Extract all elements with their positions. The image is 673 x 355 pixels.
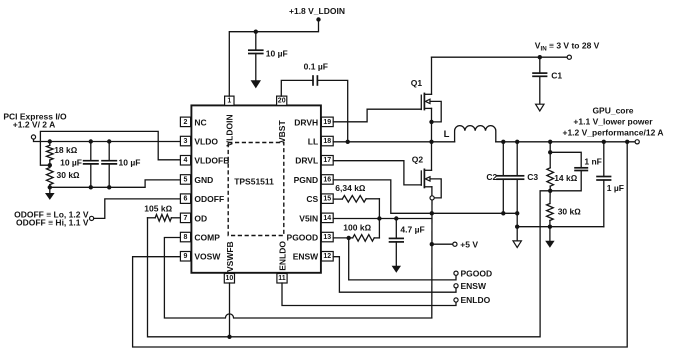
svg-text:1 µF: 1 µF	[607, 183, 624, 193]
svg-text:30 kΩ: 30 kΩ	[558, 207, 582, 217]
svg-text:6: 6	[184, 196, 188, 203]
svg-text:C1: C1	[551, 71, 562, 81]
wire PGOOD to terminal	[349, 238, 456, 280]
junction feedback top	[625, 140, 629, 144]
svg-text:ENSW: ENSW	[461, 281, 487, 291]
svg-text:COMP: COMP	[194, 233, 220, 243]
junction Q1 at LL	[429, 140, 433, 144]
junction 1uF top	[602, 140, 606, 144]
junction cap2 top	[107, 139, 111, 143]
svg-text:ENSW: ENSW	[293, 252, 319, 262]
wire gnd link line	[517, 226, 604, 228]
svg-text:2: 2	[184, 119, 188, 126]
svg-text:3: 3	[184, 138, 188, 145]
svg-text:+1.2 V_performance/12 A: +1.2 V_performance/12 A	[562, 128, 663, 138]
svg-text:19: 19	[323, 119, 331, 126]
wire DRVL pin 17 to Q2 gate	[333, 161, 421, 185]
junction PGOOD node	[347, 236, 351, 240]
junction C3 top	[515, 140, 519, 144]
capacitor 1uF	[596, 142, 624, 227]
pin 4 VLDOFB	[180, 156, 229, 166]
junction Q1 source-body	[429, 120, 433, 124]
pin 14 V5IN	[299, 213, 333, 223]
svg-text:5: 5	[184, 176, 188, 183]
svg-text:VOSW: VOSW	[194, 252, 221, 262]
junction VSWFB at feedback line	[227, 335, 231, 339]
svg-text:PGOOD: PGOOD	[461, 268, 493, 278]
wire CS branch down to V5IN	[378, 199, 380, 238]
junction 4.7uF at V5IN	[394, 216, 398, 220]
terminal PCI input	[31, 135, 35, 139]
ground arrow below LDOIN cap	[251, 80, 261, 88]
pin 20 VBST	[277, 96, 288, 143]
svg-text:14 kΩ: 14 kΩ	[554, 173, 578, 183]
svg-text:C3: C3	[527, 172, 538, 182]
resistor R 18k	[47, 142, 78, 166]
svg-text:15: 15	[323, 196, 331, 203]
wire GND rail to pin 5	[50, 180, 181, 187]
wire VSWFB pin 10 with hop	[229, 283, 231, 337]
resistor R 6.34k CS	[333, 183, 379, 202]
wire COMP to bottom line	[164, 238, 431, 319]
svg-text:17: 17	[323, 157, 331, 164]
junction LDOIN cap	[254, 30, 258, 34]
capacitor 0.1uF VBST	[304, 61, 328, 85]
terminal ODOFF	[90, 216, 94, 220]
wire 0.1uF to LL node	[317, 80, 347, 141]
svg-text:11: 11	[278, 275, 286, 282]
resistor R 14k	[547, 142, 578, 191]
terminal GPU core output	[635, 140, 639, 144]
svg-text:Q2: Q2	[412, 155, 424, 165]
svg-text:VLDO: VLDO	[194, 137, 218, 147]
node GPU_core labels	[562, 105, 663, 137]
terminal +1.8V LDOIN	[316, 17, 320, 21]
pin 15 CS	[306, 194, 333, 204]
capacitor 10uF right	[101, 142, 140, 188]
svg-text:13: 13	[323, 234, 331, 241]
transistor Q2	[412, 142, 441, 198]
wire V5IN pin 14	[333, 218, 432, 220]
svg-text:NC: NC	[194, 117, 206, 127]
terminal +5V	[453, 242, 457, 246]
wire 105k down to VSWFB line	[148, 191, 551, 337]
wire ENLDO pin 11 to terminal	[282, 283, 456, 306]
pin 12 ENSW	[293, 252, 333, 262]
svg-text:L: L	[444, 129, 450, 140]
svg-text:8: 8	[184, 234, 188, 241]
pin 16 PGND	[294, 175, 334, 185]
svg-text:10: 10	[226, 275, 234, 282]
wire VIN rail	[432, 56, 568, 58]
junction cap1 top	[89, 139, 93, 143]
junction 0.1uF at LL	[346, 140, 350, 144]
svg-text:VLDOFB: VLDOFB	[194, 156, 229, 166]
svg-text:GPU_core: GPU_core	[592, 105, 633, 115]
junction 14k top	[548, 140, 552, 144]
wire DRVH pin 19 to Q1 gate	[333, 109, 421, 122]
svg-text:+1.1 V_lower power: +1.1 V_lower power	[573, 117, 653, 127]
terminal VIN	[567, 55, 571, 59]
svg-text:ENLDO: ENLDO	[277, 241, 287, 271]
terminal ENSW	[454, 284, 458, 288]
svg-text:ENLDO: ENLDO	[461, 295, 491, 305]
capacitor 10uF LDOIN	[248, 32, 288, 80]
svg-text:+1.2 V/ 2 A: +1.2 V/ 2 A	[13, 120, 55, 130]
ground arrow open below C1	[536, 104, 544, 111]
junction divider tap	[48, 163, 52, 167]
wire +5V stub	[432, 243, 453, 245]
svg-text:18: 18	[323, 138, 331, 145]
junction C2 top	[501, 140, 505, 144]
junction 14k divider top node	[548, 150, 552, 154]
wire divider tap to pin 4 VLDOFB	[40, 131, 180, 165]
svg-text:LL: LL	[308, 137, 318, 147]
svg-text:PGOOD: PGOOD	[287, 233, 319, 243]
svg-text:7: 7	[184, 215, 188, 222]
pin 5 GND	[180, 175, 213, 185]
wire VOSW pin 9 feedback	[133, 142, 628, 347]
junction CS 100k at V5IN	[377, 216, 381, 220]
wire ODOFF to pin 6	[94, 199, 181, 219]
svg-text:PGND: PGND	[294, 175, 319, 185]
svg-text:ODOFF ≡ Hi, 1.1 V: ODOFF ≡ Hi, 1.1 V	[16, 218, 89, 228]
svg-text:10 µF: 10 µF	[119, 157, 141, 167]
svg-text:VSWFB: VSWFB	[225, 241, 235, 272]
resistor R 105k	[144, 203, 180, 221]
wire PCI input rail	[34, 139, 181, 141]
svg-text:ODOFF: ODOFF	[194, 194, 224, 204]
wire LDOIN to pin 1	[229, 20, 318, 97]
pin 2 NC	[180, 117, 206, 127]
svg-text:VBST: VBST	[277, 120, 287, 143]
junction C3 bottom	[515, 211, 519, 215]
svg-text:100 kΩ: 100 kΩ	[343, 223, 371, 233]
svg-text:12: 12	[323, 253, 331, 260]
junction cap1 bottom	[89, 185, 93, 189]
wire output rail	[496, 141, 635, 143]
pin 7 OD	[180, 213, 207, 223]
capacitor C1	[532, 57, 562, 104]
svg-text:C2: C2	[486, 172, 497, 182]
svg-text:Q1: Q1	[411, 78, 423, 88]
junction Q2 source at PGND rail	[430, 211, 434, 215]
svg-text:GND: GND	[194, 175, 213, 185]
svg-text:6,34 kΩ: 6,34 kΩ	[335, 183, 366, 193]
pin 8 COMP	[180, 232, 220, 242]
IC U1 TPS51511 body	[191, 105, 321, 272]
svg-text:OD: OD	[194, 213, 207, 223]
svg-text:10 µF: 10 µF	[266, 48, 288, 58]
svg-text:0.1 µF: 0.1 µF	[304, 61, 328, 71]
junction C1	[538, 55, 542, 59]
pin 1 VLDOIN	[225, 96, 235, 146]
svg-text:105 kΩ: 105 kΩ	[144, 203, 172, 213]
transistor Q1	[411, 57, 441, 142]
junction C2 bottom	[501, 211, 505, 215]
svg-text:1: 1	[227, 98, 231, 105]
wire LL pin 18 to inductor	[333, 141, 454, 143]
ground arrow open below C2 C3	[513, 241, 521, 248]
svg-text:+1.8 V_LDOIN: +1.8 V_LDOIN	[289, 6, 345, 16]
resistor R 30k right	[547, 191, 582, 227]
junction +5V stub	[430, 242, 434, 246]
pin 10 VSWFB	[224, 241, 235, 283]
capacitor 1nF	[550, 152, 602, 191]
junction 30k bottom right	[548, 225, 552, 229]
svg-text:9: 9	[184, 253, 188, 260]
pin 18 LL	[308, 136, 333, 146]
svg-text:20: 20	[278, 98, 286, 105]
capacitor C2	[486, 142, 510, 214]
junction 18k top	[48, 139, 52, 143]
pin 17 DRVL	[295, 156, 333, 166]
wire C3 bottom to gnd link	[516, 213, 518, 240]
svg-text:DRVH: DRVH	[294, 117, 318, 127]
pin 19 DRVH	[294, 117, 333, 127]
terminal PGOOD	[454, 271, 458, 275]
ground arrow below 30k	[45, 187, 55, 200]
svg-text:16: 16	[323, 176, 331, 183]
svg-text:V5IN: V5IN	[299, 213, 318, 223]
junction 14k 30k tap	[548, 189, 552, 193]
wire ENSW pin 12 to terminal	[333, 257, 456, 293]
svg-text:10 µF: 10 µF	[60, 157, 82, 167]
svg-text:DRVL: DRVL	[295, 156, 318, 166]
capacitor 4.7uF	[389, 219, 425, 267]
svg-text:14: 14	[323, 215, 331, 222]
pin 6 ODOFF	[180, 194, 224, 204]
svg-text:1 nF: 1 nF	[584, 157, 601, 167]
ground arrow below 4.7uF	[392, 266, 401, 273]
ground arrow below 30k right	[545, 227, 554, 248]
svg-text:VLDOIN: VLDOIN	[225, 114, 235, 146]
pin 11 ENLDO	[277, 241, 288, 283]
svg-text:30 kΩ: 30 kΩ	[57, 170, 81, 180]
junction gnd link left	[515, 225, 519, 229]
svg-text:+5 V: +5 V	[460, 240, 478, 250]
svg-text:CS: CS	[306, 194, 318, 204]
capacitor 10uF left	[60, 142, 99, 188]
pin 9 VOSW	[180, 252, 221, 262]
resistor R 30k left	[47, 165, 81, 187]
pin 13 PGOOD	[287, 232, 334, 242]
node Q2 source circle	[430, 196, 434, 200]
inductor L	[444, 126, 496, 142]
junction 30k bottom	[48, 185, 52, 189]
wire PGND pin 16 to rail	[333, 180, 517, 213]
junction cap2 bottom	[107, 185, 111, 189]
svg-text:4: 4	[184, 157, 188, 164]
capacitor C3	[510, 142, 538, 214]
svg-text:TPS51511: TPS51511	[234, 177, 274, 187]
wire VBST to 0.1uF	[281, 80, 313, 96]
wire Q2 source down	[431, 200, 433, 318]
svg-text:18 kΩ: 18 kΩ	[54, 145, 78, 155]
svg-text:4.7 µF: 4.7 µF	[400, 224, 424, 234]
terminal ENLDO	[454, 298, 458, 302]
pin 3 VLDO	[180, 136, 218, 146]
wire PGOOD pin 13	[333, 237, 353, 239]
resistor R 100k	[343, 223, 379, 242]
